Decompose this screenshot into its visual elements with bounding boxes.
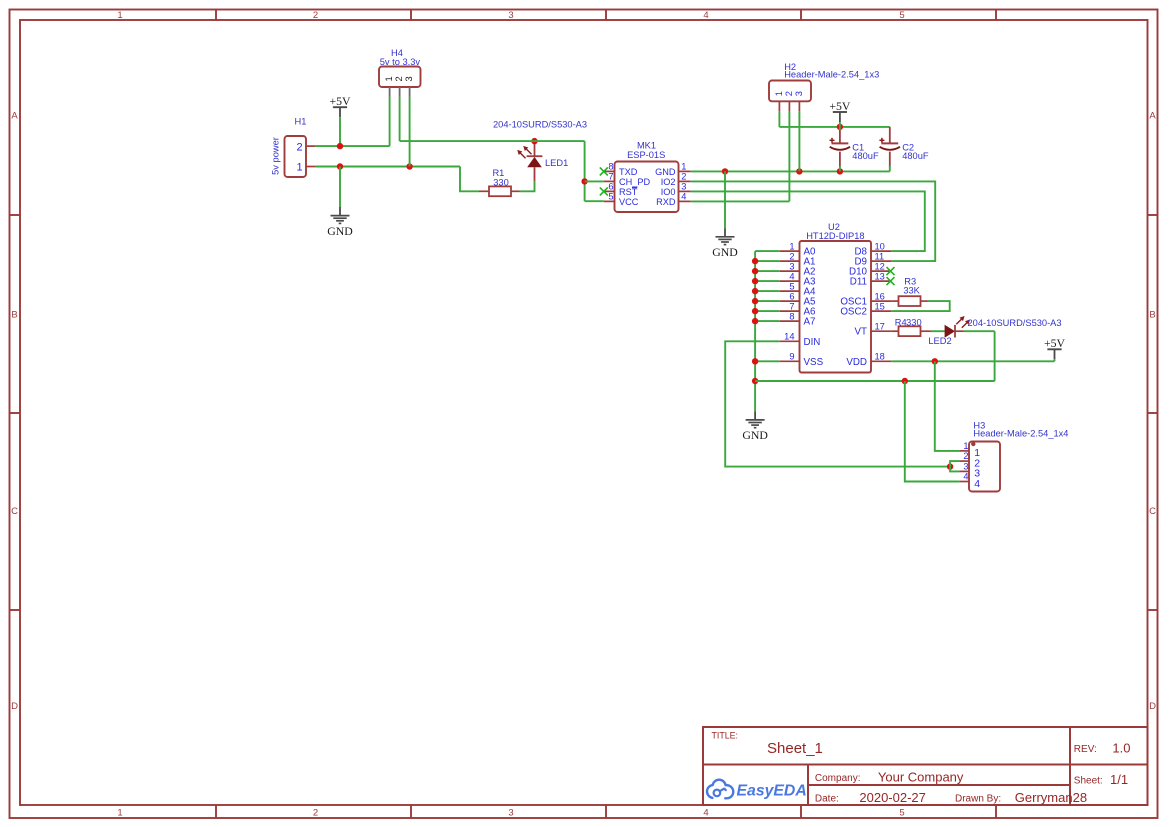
no-connect pin 12 xyxy=(887,267,895,275)
wire xyxy=(950,461,959,471)
wire xyxy=(755,270,780,272)
node xyxy=(581,178,587,184)
wire xyxy=(339,167,341,208)
wire xyxy=(755,320,780,322)
wire xyxy=(691,200,790,202)
wire xyxy=(691,181,935,261)
capacitor C1 480uF xyxy=(830,129,879,167)
wire xyxy=(964,330,995,332)
wire xyxy=(779,126,889,128)
no-connect pin 13 xyxy=(887,277,895,285)
wire xyxy=(584,141,586,201)
node xyxy=(406,163,412,169)
wire xyxy=(316,145,390,147)
node xyxy=(947,463,953,469)
wire xyxy=(889,166,891,171)
svg-text:Sheet:: Sheet: xyxy=(1074,776,1103,787)
wire xyxy=(755,300,780,302)
power +5V (VDD) xyxy=(1044,336,1066,361)
svg-text:1.0: 1.0 xyxy=(1112,740,1130,755)
EasyEDA logo xyxy=(707,780,807,800)
wire xyxy=(389,97,391,146)
node xyxy=(752,318,758,324)
no-connect pin 6 xyxy=(600,187,608,195)
wire xyxy=(399,97,401,141)
node xyxy=(932,358,938,364)
IC U2 HT12D-DIP18 xyxy=(780,222,891,373)
node xyxy=(902,378,908,384)
connector H3 Header-Male-2.54_1x4 xyxy=(959,420,1068,491)
power +5V (H1) xyxy=(329,94,351,146)
svg-text:Drawn By:: Drawn By: xyxy=(955,794,1001,805)
svg-text:REV:: REV: xyxy=(1074,744,1097,755)
wire xyxy=(755,250,780,252)
wire xyxy=(409,97,411,167)
wire xyxy=(585,180,604,182)
wire xyxy=(585,200,604,202)
svg-text:Your Company: Your Company xyxy=(878,770,964,785)
node xyxy=(722,168,728,174)
node xyxy=(752,258,758,264)
power +5V (C1) xyxy=(829,99,851,127)
node xyxy=(752,298,758,304)
svg-text:Sheet_1: Sheet_1 xyxy=(767,740,823,757)
resistor R1 xyxy=(479,168,520,196)
wire xyxy=(691,191,925,251)
LED LED1 xyxy=(493,120,587,181)
connector H4 (5v to 3.3v) xyxy=(379,48,421,97)
wire xyxy=(755,360,780,362)
ground (U2) xyxy=(742,411,768,442)
wire xyxy=(839,166,841,171)
wire xyxy=(755,380,995,382)
wire xyxy=(691,170,890,172)
resistor R3 33K xyxy=(891,277,928,306)
node xyxy=(752,358,758,364)
node xyxy=(837,124,843,130)
resistor R4 330 xyxy=(891,318,931,337)
wire xyxy=(798,111,800,171)
capacitor C2 480uF xyxy=(879,127,928,167)
wire xyxy=(725,341,950,466)
wire xyxy=(755,280,780,282)
wire xyxy=(935,361,959,451)
wire xyxy=(994,331,996,381)
no-connect pin 8 xyxy=(600,167,608,175)
wire xyxy=(839,127,841,130)
wire xyxy=(891,301,950,311)
wire xyxy=(788,111,790,201)
node xyxy=(337,163,343,169)
ground (H1) xyxy=(327,207,353,238)
ground (ESP) xyxy=(712,228,738,259)
wire xyxy=(778,111,780,127)
wire xyxy=(754,251,756,411)
node xyxy=(752,308,758,314)
wire xyxy=(724,171,726,228)
LED LED2 xyxy=(928,316,1061,346)
wire xyxy=(755,310,780,312)
wire xyxy=(400,140,585,142)
svg-text:TITLE:: TITLE: xyxy=(712,731,738,741)
node xyxy=(752,378,758,384)
wire xyxy=(460,167,479,192)
node xyxy=(531,138,537,144)
node xyxy=(752,268,758,274)
wire xyxy=(520,181,535,191)
wire xyxy=(755,260,780,262)
wire xyxy=(931,330,945,332)
node xyxy=(752,288,758,294)
svg-text:EasyEDA: EasyEDA xyxy=(737,782,807,799)
wire xyxy=(891,360,1054,362)
svg-text:Date:: Date: xyxy=(815,793,839,804)
node xyxy=(337,143,343,149)
connector H1 (5v power) xyxy=(270,117,315,177)
svg-text:2020-02-27: 2020-02-27 xyxy=(859,790,926,805)
svg-text:Company:: Company: xyxy=(815,773,861,784)
svg-text:Gerryman28: Gerryman28 xyxy=(1015,790,1087,805)
node xyxy=(796,168,802,174)
connector H2 Header-Male-2.54_1x3 xyxy=(769,62,879,111)
wire xyxy=(905,381,959,482)
wire xyxy=(755,290,780,292)
wire xyxy=(316,166,460,168)
svg-text:1/1: 1/1 xyxy=(1110,772,1128,787)
node xyxy=(837,168,843,174)
node xyxy=(752,278,758,284)
module MK1 ESP-01S xyxy=(604,140,691,212)
